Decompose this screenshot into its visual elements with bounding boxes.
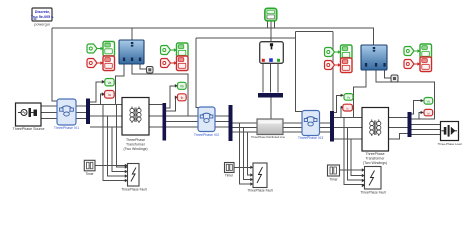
svg-text:Va: Va (108, 81, 112, 85)
svg-text:Three-Phase Load: Three-Phase Load (438, 142, 462, 146)
svg-text:Timer: Timer (85, 172, 94, 176)
svg-text:Ia: Ia (108, 93, 111, 97)
svg-text:Vd: Vd (427, 100, 431, 104)
svg-text:ThreePhase VI1: ThreePhase VI1 (54, 126, 79, 130)
svg-text:ThreePhase VI2: ThreePhase VI2 (194, 133, 219, 137)
svg-text:Vb: Vb (180, 85, 184, 89)
svg-text:(Two Windings): (Two Windings) (363, 161, 387, 165)
svg-text:ThreePhase VI3: ThreePhase VI3 (298, 136, 323, 140)
svg-text:powergui: powergui (34, 23, 50, 27)
svg-text:Discrete,: Discrete, (35, 10, 50, 14)
svg-text:ThreePhase: ThreePhase (365, 152, 384, 156)
svg-text:ThreePhase: ThreePhase (126, 138, 145, 142)
svg-text:Timer: Timer (329, 178, 338, 182)
svg-text:(Two Windings): (Two Windings) (123, 147, 147, 151)
svg-text:Timer: Timer (225, 174, 234, 178)
svg-text:ThreePhase Distributed Line: ThreePhase Distributed Line (251, 135, 286, 139)
svg-text:ThreePhase Fault: ThreePhase Fault (360, 191, 385, 195)
svg-text:Ib: Ib (181, 96, 184, 100)
svg-text:ThreePhase Source: ThreePhase Source (13, 127, 45, 131)
svg-text:ThreePhase Fault: ThreePhase Fault (247, 189, 272, 193)
svg-text:Transformer: Transformer (366, 157, 386, 161)
svg-text:Transformer: Transformer (126, 143, 146, 147)
svg-text:ThreePhase Fault: ThreePhase Fault (121, 188, 146, 192)
